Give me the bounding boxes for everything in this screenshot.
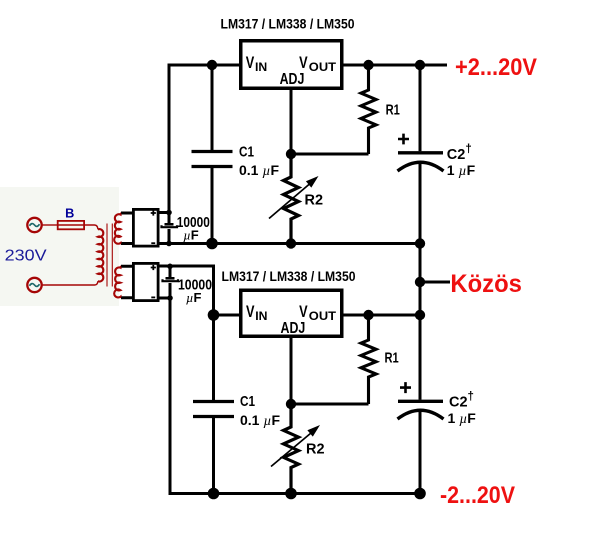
node dot mid rail R2: [286, 238, 296, 248]
svg-text:0.1 µF: 0.1 µF: [240, 412, 280, 429]
svg-text:0.1 µF: 0.1 µF: [239, 162, 279, 179]
wire bottom VOUT: [344, 314, 421, 317]
node dot bridge1 minus: [166, 241, 172, 247]
capacitor C1 top: [192, 145, 280, 180]
svg-text:OUT: OUT: [309, 309, 337, 323]
wire top VOUT: [344, 64, 448, 67]
wire AC live: [42, 224, 57, 226]
node dot -V corner: [414, 488, 426, 500]
node dot ADJ bottom: [286, 399, 296, 409]
svg-text:IN: IN: [255, 309, 267, 323]
node dot VOUT bottom rail: [415, 310, 425, 320]
node dot mid rail right: [415, 238, 425, 248]
node dot bridge1 plus: [166, 210, 172, 216]
svg-text:+2...20V: +2...20V: [455, 54, 537, 81]
node dot bottom rail R2: [285, 488, 297, 500]
node dot bridge2 minus: [167, 295, 173, 301]
svg-text:µF: µF: [186, 290, 202, 305]
svg-text:B: B: [65, 206, 74, 220]
node dot VOUT top R1: [363, 60, 373, 70]
capacitor 10000uF bottom (between bridge2 outputs): [163, 266, 213, 305]
regulator U2 LM317/LM338/LM350 bottom: [222, 269, 356, 337]
wire top ADJ pin: [290, 89, 293, 154]
wire bottom C1 rail: [212, 315, 215, 494]
resistor R1 top: [361, 65, 400, 154]
AC source terminal 1: [27, 218, 41, 232]
svg-text:V: V: [299, 302, 308, 321]
svg-text:R1: R1: [385, 351, 399, 367]
wire bottom ADJ to R1: [291, 403, 369, 406]
wire bottom minus rail: [170, 298, 420, 494]
svg-text:V: V: [299, 53, 308, 72]
svg-text:ADJ: ADJ: [280, 71, 305, 88]
node dot ADJ top: [286, 149, 296, 159]
wire Közös stub: [420, 281, 450, 284]
svg-text:ADJ: ADJ: [281, 320, 306, 337]
wire mid rail: [159, 242, 420, 245]
wire bridge2 minus stub: [159, 297, 170, 300]
wire bottom VIN feed: [159, 266, 240, 315]
resistor R1 bottom: [361, 315, 399, 404]
wire bridge1 minus stub: [159, 242, 170, 245]
svg-text:1 µF: 1 µF: [447, 162, 476, 179]
svg-text:LM317 / LM338 / LM350: LM317 / LM338 / LM350: [221, 17, 355, 32]
svg-text:1 µF: 1 µF: [448, 410, 477, 427]
AC source terminal 2: [27, 278, 41, 292]
wire top ADJ to R1: [291, 153, 369, 156]
capacitor C2 top: [398, 134, 476, 179]
svg-text:R2: R2: [305, 191, 324, 208]
svg-text:OUT: OUT: [309, 60, 337, 74]
wire top VIN rail: [159, 65, 240, 213]
svg-text:LM317 / LM338 / LM350: LM317 / LM338 / LM350: [222, 269, 356, 284]
svg-text:C1: C1: [240, 394, 255, 410]
fuse B: [57, 206, 85, 229]
wire right rail: [419, 65, 422, 494]
svg-text:R2: R2: [306, 441, 325, 458]
wire top C1 rail: [211, 65, 214, 244]
transformer primary winding: [98, 229, 104, 281]
svg-text:V: V: [246, 53, 255, 72]
svg-text:230V: 230V: [5, 248, 47, 265]
node dot VIN top: [207, 60, 217, 70]
bridge rectifier 2: [133, 263, 158, 300]
capacitor 10000uF top (between bridge1 outputs): [162, 213, 210, 244]
svg-text:Közös: Közös: [450, 270, 522, 298]
svg-text:C1: C1: [239, 145, 254, 161]
svg-text:V: V: [246, 302, 255, 321]
bridge rectifier 1: [133, 209, 158, 246]
wire secondary1 stubs: [121, 213, 133, 244]
capacitor C1 bottom: [193, 394, 280, 429]
transformer core: [107, 224, 112, 287]
wire fuse to transformer: [85, 225, 98, 229]
transformer secondary winding 1: [114, 213, 121, 243]
node dot bottom rail C1: [208, 488, 220, 500]
potentiometer R2 bottom: [271, 404, 325, 494]
node dot mid rail C1: [206, 238, 218, 250]
potentiometer R2 top: [269, 154, 323, 244]
wire AC neutral: [42, 281, 98, 285]
node dot bridge2 plus: [167, 264, 173, 270]
node dot Közös: [415, 277, 425, 287]
node dot +V rail: [415, 60, 425, 70]
regulator U1 LM317/LM338/LM350 top: [221, 17, 355, 89]
transformer secondary winding 2: [114, 267, 121, 298]
capacitor C2 bottom: [398, 382, 477, 427]
wire secondary2 stubs: [121, 266, 133, 297]
svg-text:-2...20V: -2...20V: [440, 482, 515, 509]
svg-text:IN: IN: [255, 60, 267, 74]
svg-text:R1: R1: [386, 103, 400, 119]
node dot VIN bottom: [208, 309, 220, 321]
svg-text:µF: µF: [183, 228, 199, 243]
node dot VOUT bottom R1: [363, 310, 373, 320]
wire bottom ADJ pin: [290, 337, 293, 404]
